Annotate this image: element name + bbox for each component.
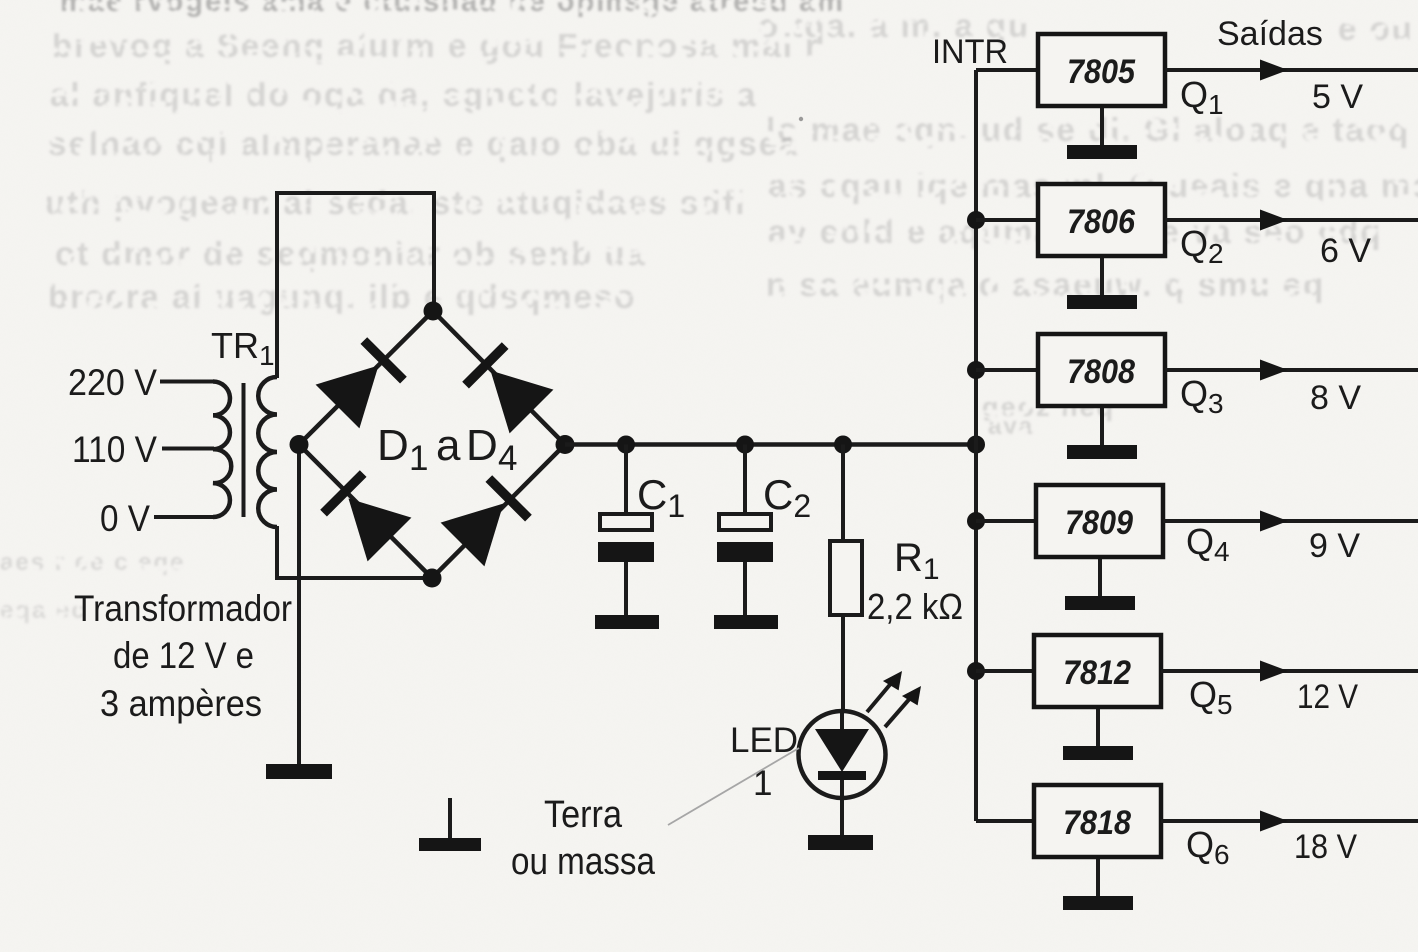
- ground C1: [595, 615, 659, 629]
- svg-text:ava: ava: [988, 413, 1034, 440]
- ground 7818: [1063, 859, 1133, 910]
- regulator U1 7805: [1038, 34, 1165, 106]
- wire 7809 output: [1163, 519, 1418, 523]
- label LED 1: [730, 721, 798, 803]
- svg-text:7806: 7806: [1067, 203, 1136, 241]
- arrow 7809 output: [1260, 511, 1288, 532]
- ground Terra ou massa: [419, 798, 481, 851]
- svg-text:de 12 V e: de 12 V e: [113, 635, 254, 676]
- node bridge left: [290, 435, 309, 454]
- svg-text:8 V: 8 V: [1310, 379, 1361, 417]
- svg-text:3 ampères: 3 ampères: [100, 683, 262, 724]
- node 7812 junction: [967, 662, 985, 680]
- diode D2: [460, 340, 553, 433]
- ground transformer: [266, 764, 332, 779]
- node bridge top: [424, 302, 443, 321]
- ground 7812: [1063, 709, 1133, 760]
- svg-text:ot dmor de seqmoniar ob senb u: ot dmor de seqmoniar ob senb ua: [55, 235, 647, 272]
- ground 7808: [1067, 408, 1137, 459]
- svg-text:7808: 7808: [1067, 353, 1135, 391]
- wire 7809 input: [976, 519, 1038, 523]
- svg-text:e ou: e ou: [1338, 10, 1414, 47]
- arrow 7806 output: [1260, 210, 1288, 231]
- node R1 junction: [834, 436, 852, 454]
- wire secondary top to bridge top: [277, 193, 434, 378]
- ground 7806: [1067, 258, 1137, 309]
- arrow 7805 output: [1260, 60, 1288, 81]
- wire 7806 input: [976, 218, 1038, 222]
- node bus junction: [967, 436, 985, 454]
- transformer TR1 primary winding: [213, 382, 231, 518]
- svg-text:al anfiquel do oqa da, egneto: al anfiquel do oqa da, egneto lavejuris …: [50, 76, 757, 113]
- node bridge bottom: [423, 569, 442, 588]
- ground C2: [714, 615, 778, 629]
- node 7809 junction: [967, 512, 985, 530]
- regulator U3 7808: [1038, 334, 1165, 406]
- diode D4: [441, 473, 534, 566]
- arrow 7818 output: [1260, 811, 1288, 832]
- wire main bus: [565, 442, 976, 447]
- svg-text:2,2 kΩ: 2,2 kΩ: [867, 586, 963, 627]
- arrow 7808 output: [1260, 360, 1288, 381]
- svg-text:18 V: 18 V: [1294, 828, 1357, 866]
- label Terra ou massa: [511, 794, 656, 883]
- wire 7808 input: [976, 368, 1038, 372]
- svg-text:Transformador: Transformador: [74, 588, 292, 629]
- svg-text:n sa eumqa o asaeuw. q smu eq: n sa eumqa o asaeuw. q smu eq: [766, 266, 1325, 303]
- wire 0 V tap: [154, 515, 214, 519]
- svg-text:1: 1: [409, 439, 428, 478]
- capacitor C1: [598, 445, 654, 616]
- node bridge right: [556, 435, 575, 454]
- svg-text:uth pvogeam al seda. ste atuqi: uth pvogeam al seda. ste atuqidaes sdfi: [45, 184, 747, 221]
- wire 7806 output: [1165, 218, 1418, 222]
- ground 7809: [1065, 559, 1135, 610]
- svg-text:7818: 7818: [1063, 804, 1131, 842]
- transformer TR1 core: [242, 383, 246, 517]
- LED LED1: [799, 666, 929, 835]
- svg-text:Terra: Terra: [544, 794, 623, 836]
- capacitor C2: [717, 445, 773, 616]
- wire 7812 output: [1161, 669, 1418, 673]
- wire INTR bus: [974, 70, 978, 821]
- svg-text:110 V: 110 V: [72, 429, 157, 470]
- svg-text:ou massa: ou massa: [511, 841, 656, 883]
- svg-text:Saídas: Saídas: [1217, 15, 1323, 53]
- svg-text:a: a: [436, 421, 461, 470]
- wire 110 V tap: [162, 447, 214, 451]
- svg-text:brecra al uagunq, ilb e qdsqme: brecra al uagunq, ilb e qdsqmeso: [48, 278, 636, 315]
- svg-text:7805: 7805: [1067, 53, 1136, 91]
- diode D1: [316, 335, 409, 428]
- bridge rectifier D1 a D4 frame: [299, 311, 565, 578]
- regulator U4 7809: [1036, 485, 1163, 557]
- node 7806 junction: [967, 211, 985, 229]
- svg-text:6 V: 6 V: [1320, 232, 1371, 270]
- svg-text:INTR: INTR: [932, 33, 1008, 71]
- node 7808 junction: [967, 361, 985, 379]
- wire 7808 output: [1165, 368, 1418, 372]
- resistor R1: [830, 445, 862, 713]
- wire 7805 output: [1165, 68, 1418, 72]
- svg-text:selnao cqi almperanae e qaio o: selnao cqi almperanae e qaio oba ui qgse…: [48, 125, 799, 162]
- svg-text:5 V: 5 V: [1312, 78, 1363, 116]
- svg-text:aes r ee c eqe: aes r ee c eqe: [0, 549, 185, 576]
- svg-text:7812: 7812: [1063, 654, 1131, 692]
- wire secondary bottom to bridge bottom: [277, 526, 432, 578]
- arrow 7812 output: [1260, 661, 1288, 682]
- transformer TR1 secondary winding: [258, 377, 277, 527]
- svg-text:mae rvogels ama e etulsnad ue: mae rvogels ama e etulsnad ue opmsge atr…: [60, 0, 845, 18]
- regulator U6 7818: [1034, 785, 1161, 857]
- regulator U2 7806: [1038, 184, 1165, 256]
- regulator U5 7812: [1034, 635, 1161, 707]
- label Transformador de 12 V e 3 amperes: [74, 588, 292, 724]
- label D1 a D4: [377, 421, 517, 478]
- wire 7805 input: [976, 68, 1038, 72]
- svg-text:220 V: 220 V: [68, 362, 157, 403]
- ground 7805: [1067, 108, 1137, 159]
- node C1 junction: [617, 436, 635, 454]
- callout line Terra: [668, 748, 799, 825]
- node C2 junction: [736, 436, 754, 454]
- svg-text:D: D: [377, 421, 409, 470]
- wire 7818 output: [1161, 819, 1418, 823]
- ground LED1: [808, 835, 873, 850]
- svg-text:lo mae eqn. ud se dl. Gl aloaq: lo mae eqn. ud se dl. Gl aloaq e taoq ue…: [766, 111, 1418, 148]
- svg-text:12 V: 12 V: [1297, 678, 1358, 716]
- wire 220 V tap: [160, 380, 214, 384]
- svg-text:0 V: 0 V: [100, 498, 150, 539]
- svg-text:9 V: 9 V: [1309, 527, 1360, 565]
- svg-text:D: D: [466, 421, 498, 470]
- svg-text:4: 4: [498, 439, 517, 478]
- wire bridge left node to ground: [297, 445, 301, 765]
- diode D3: [318, 468, 411, 561]
- wire 7818 input: [976, 819, 1036, 823]
- svg-text:brevoq a Seenq alurm e gou Fre: brevoq a Seenq alurm e gou Frecnosa mai …: [52, 27, 820, 64]
- svg-text:7809: 7809: [1065, 504, 1133, 542]
- wire 7812 input: [976, 669, 1036, 673]
